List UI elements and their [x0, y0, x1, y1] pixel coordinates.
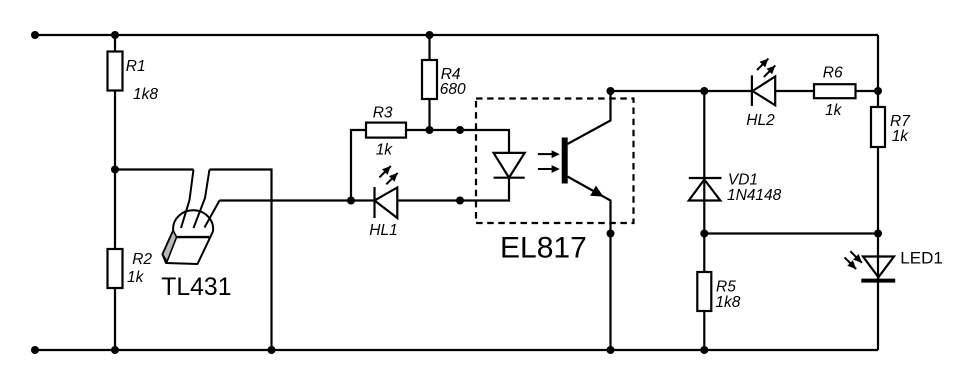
svg-text:1k: 1k: [892, 128, 910, 145]
svg-text:R2: R2: [132, 251, 152, 268]
svg-text:1k: 1k: [376, 141, 394, 158]
svg-text:1N4148: 1N4148: [727, 187, 782, 204]
svg-text:1k8: 1k8: [715, 294, 740, 311]
svg-text:1k: 1k: [825, 102, 843, 119]
svg-text:TL431: TL431: [161, 274, 231, 301]
svg-text:R6: R6: [823, 65, 843, 82]
svg-text:1k8: 1k8: [133, 86, 158, 103]
svg-text:R1: R1: [126, 58, 146, 75]
svg-text:R5: R5: [716, 279, 736, 296]
svg-text:680: 680: [440, 81, 466, 98]
svg-text:EL817: EL817: [500, 232, 587, 265]
svg-text:1k: 1k: [127, 269, 145, 286]
svg-text:HL1: HL1: [369, 222, 397, 239]
svg-text:HL2: HL2: [746, 112, 775, 129]
svg-text:VD1: VD1: [728, 172, 758, 189]
svg-text:R3: R3: [373, 105, 393, 122]
svg-text:LED1: LED1: [900, 248, 943, 267]
